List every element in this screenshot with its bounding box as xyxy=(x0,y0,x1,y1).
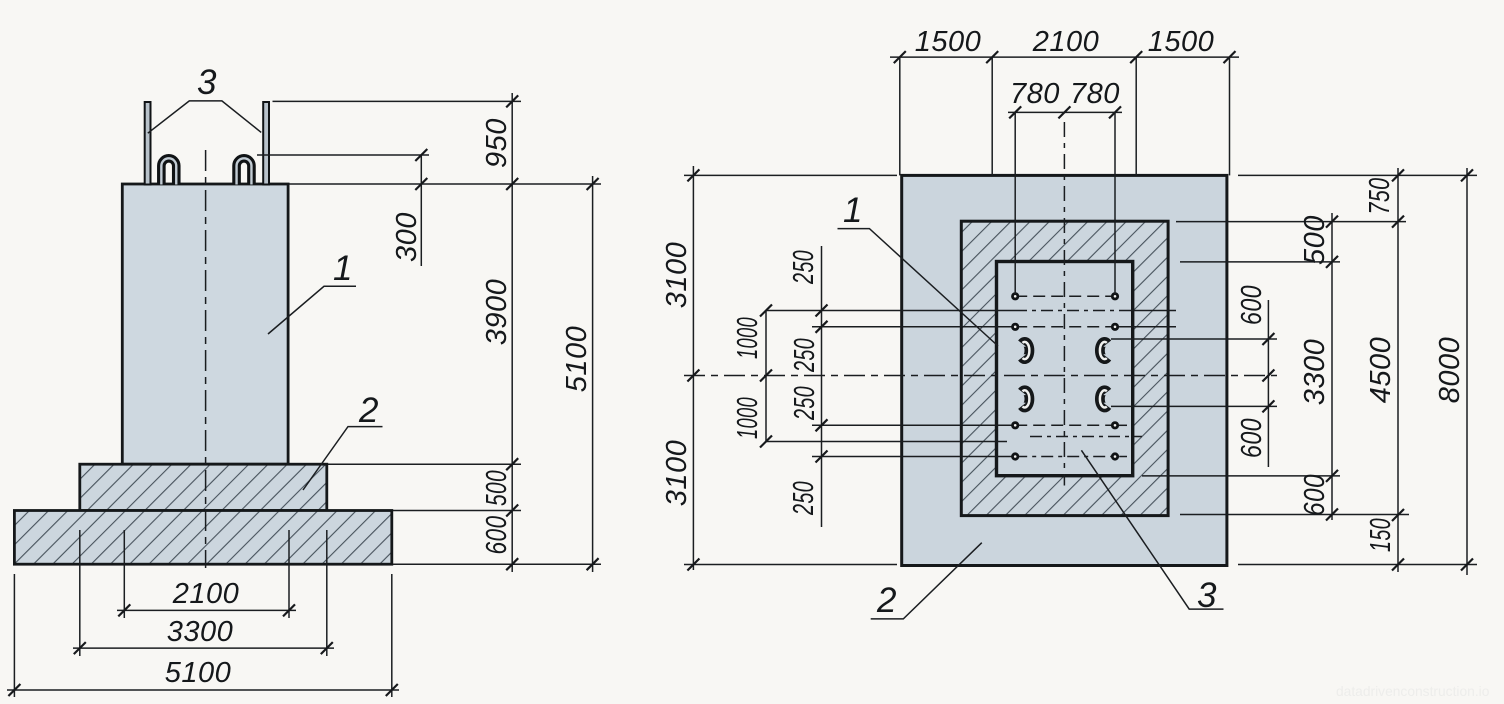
svg-text:3300: 3300 xyxy=(1299,339,1331,406)
extension line pedestal top xyxy=(290,183,602,185)
svg-text:600: 600 xyxy=(1236,418,1268,458)
dim line 5100 vertical xyxy=(592,176,594,572)
dim line 3100/3100 xyxy=(692,166,694,570)
extension lines 5100 xyxy=(13,574,15,697)
leader 1000-bottom xyxy=(766,441,1007,443)
aux dim line 600/600 xyxy=(1267,300,1269,467)
svg-text:150: 150 xyxy=(1365,518,1397,552)
bottom slab hatched xyxy=(14,511,391,565)
left extension bottom xyxy=(684,564,897,566)
svg-text:780: 780 xyxy=(1010,78,1060,110)
tick marks plan xyxy=(687,51,1473,570)
extension line rod top xyxy=(273,100,522,102)
right extension bottom xyxy=(1238,564,1477,566)
extension lines 2100 xyxy=(123,530,125,618)
right extension mid-rect bottom xyxy=(1180,514,1409,516)
svg-text:datadrivenconstruction.io: datadrivenconstruction.io xyxy=(1336,684,1490,699)
tick marks elevation xyxy=(8,95,598,696)
leader row 250-top xyxy=(766,310,1015,312)
svg-text:780: 780 xyxy=(1070,78,1120,110)
row3 with leader xyxy=(812,424,1015,426)
row1 dashed xyxy=(1015,295,1115,297)
svg-text:2100: 2100 xyxy=(1032,26,1100,58)
svg-text:600: 600 xyxy=(481,516,513,555)
svg-text:3100: 3100 xyxy=(661,440,693,507)
svg-text:3100: 3100 xyxy=(661,242,693,309)
dim line 1000/1000 xyxy=(765,311,767,442)
step slab (part 2) hatched xyxy=(80,464,327,510)
leader top C to 600 xyxy=(1111,338,1277,340)
svg-text:300: 300 xyxy=(391,212,423,262)
extension verticals 780 to bolts xyxy=(1014,112,1016,294)
anchor loop marks plan: left col opening left, right col opening right xyxy=(1022,342,1107,408)
dim line 8000 xyxy=(1466,168,1468,575)
svg-text:1000: 1000 xyxy=(732,397,764,439)
extension lines 3300 xyxy=(79,530,81,656)
column pedestal (part 1) body xyxy=(122,184,288,464)
svg-text:4500: 4500 xyxy=(1365,337,1397,404)
right extension top xyxy=(1238,174,1477,176)
svg-text:2: 2 xyxy=(876,581,896,620)
dim chain 950/3900/500/600 xyxy=(511,93,513,572)
svg-text:1500: 1500 xyxy=(915,26,982,58)
svg-text:250: 250 xyxy=(788,481,820,516)
left extension top xyxy=(684,174,897,176)
dim line 250 chain xyxy=(821,246,823,527)
dim line 3300 xyxy=(73,647,334,649)
svg-text:8000: 8000 xyxy=(1434,337,1466,404)
svg-text:5100: 5100 xyxy=(165,657,232,689)
right extension inner-rect top xyxy=(1180,261,1340,263)
svg-text:250: 250 xyxy=(789,386,821,421)
extension line step top xyxy=(328,463,521,465)
extension line slab top xyxy=(393,510,521,512)
center line of elevation xyxy=(205,150,207,568)
top dim line 1500/2100/1500 xyxy=(890,56,1239,58)
center line vertical plan xyxy=(1063,122,1065,486)
right anchor rod (part 3) xyxy=(263,102,269,185)
svg-text:1: 1 xyxy=(843,191,862,230)
dim line 750/4500/150 xyxy=(1397,168,1399,572)
right anchor loop xyxy=(237,158,252,184)
dim line 780/780 xyxy=(1008,111,1122,113)
svg-text:250: 250 xyxy=(788,250,820,285)
row4 dash-dot xyxy=(812,456,1015,458)
dim line 5100 xyxy=(7,689,399,691)
foundation slab outline (part 2) plan xyxy=(902,175,1227,565)
bolt row lines xyxy=(766,296,1176,456)
svg-text:1000: 1000 xyxy=(732,317,764,359)
svg-text:3900: 3900 xyxy=(481,279,513,346)
row2 with leaders xyxy=(812,326,1015,328)
svg-text:500: 500 xyxy=(1299,215,1331,265)
svg-text:750: 750 xyxy=(1364,178,1396,215)
extension verticals top xyxy=(899,57,901,175)
left anchor loop xyxy=(161,158,176,184)
right extension inner-rect bottom xyxy=(1142,475,1340,477)
extension line loop top xyxy=(257,154,429,156)
svg-text:2100: 2100 xyxy=(172,578,240,610)
center line horizontal plan xyxy=(684,375,1277,377)
svg-text:3: 3 xyxy=(197,63,217,102)
column footprint (part 1) inner rect xyxy=(997,262,1133,476)
svg-text:1500: 1500 xyxy=(1148,26,1215,58)
dim line 300 xyxy=(420,155,422,266)
right extension mid-rect top xyxy=(1176,221,1406,223)
svg-text:600: 600 xyxy=(1236,285,1268,325)
svg-text:1: 1 xyxy=(333,249,352,288)
leader bottom C to 600 xyxy=(1111,405,1277,407)
svg-text:250: 250 xyxy=(789,338,821,373)
svg-text:600: 600 xyxy=(1299,474,1331,516)
svg-text:3300: 3300 xyxy=(167,616,234,648)
middle step hatched band xyxy=(961,221,1168,515)
svg-text:950: 950 xyxy=(481,118,513,168)
svg-text:5100: 5100 xyxy=(561,326,593,393)
svg-text:500: 500 xyxy=(481,470,513,506)
dim line 500/3300/600 xyxy=(1331,213,1333,520)
anchor bolts xyxy=(1013,294,1118,460)
dim line 2100 xyxy=(117,609,296,611)
extension line slab bottom xyxy=(393,563,601,565)
left anchor rod (part 3) xyxy=(145,102,151,185)
svg-text:2: 2 xyxy=(358,391,378,430)
